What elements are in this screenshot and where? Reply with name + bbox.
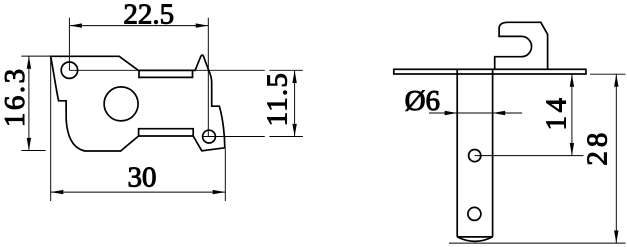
svg-text:28: 28 [582,129,614,166]
svg-text:30: 30 [128,162,157,194]
svg-text:11.5: 11.5 [262,72,294,126]
svg-text:Ø6: Ø6 [405,85,440,117]
svg-text:22.5: 22.5 [123,0,174,31]
svg-text:14: 14 [541,95,573,131]
svg-text:16.3: 16.3 [0,66,31,127]
